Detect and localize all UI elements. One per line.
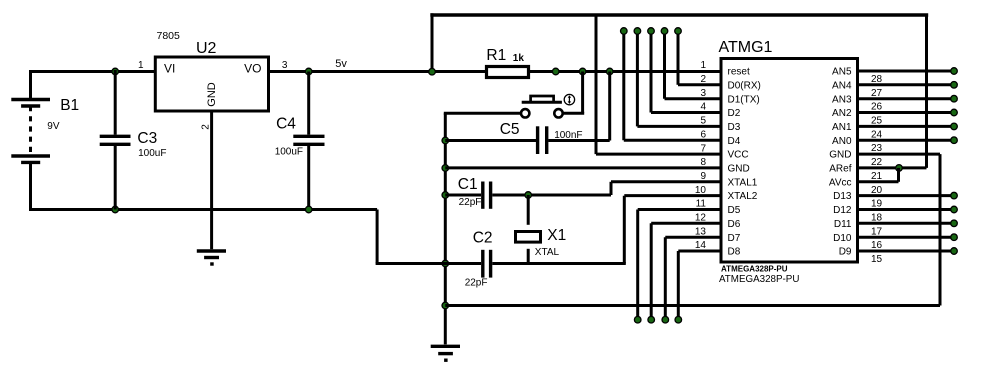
svg-text:2: 2 xyxy=(201,124,212,130)
node reset b (button) xyxy=(579,68,586,75)
wire gnd bus vertical xyxy=(444,113,447,344)
svg-text:10: 10 xyxy=(695,185,707,196)
svg-text:GND: GND xyxy=(728,164,750,175)
svg-text:21: 21 xyxy=(871,171,883,182)
wire XTAL2 row pin10 xyxy=(624,194,721,197)
wire pin 12 drop xyxy=(650,223,653,319)
IC ATMG1 box xyxy=(721,59,858,263)
svg-text:C2: C2 xyxy=(473,229,493,246)
node AN3 xyxy=(951,95,958,102)
svg-text:23: 23 xyxy=(871,143,883,154)
svg-text:22pF: 22pF xyxy=(459,197,482,208)
svg-text:25: 25 xyxy=(871,116,883,127)
node bottom pin 14 xyxy=(675,316,682,323)
wire button right lead xyxy=(563,112,585,115)
svg-text:5v: 5v xyxy=(335,58,347,70)
wire AN1 stub xyxy=(858,125,955,128)
battery B1 xyxy=(11,70,50,211)
svg-text:100nF: 100nF xyxy=(554,130,582,141)
svg-text:C1: C1 xyxy=(458,176,478,193)
svg-text:D9: D9 xyxy=(839,247,852,258)
node bottom pin 13 xyxy=(662,316,669,323)
capacitor C2 xyxy=(376,250,626,278)
node header top pin 2 xyxy=(675,28,682,35)
wire pin 14 row xyxy=(678,250,721,253)
wire VCC row pin7 xyxy=(596,153,721,156)
wire pin 13 drop xyxy=(664,237,667,320)
node C3 bottom xyxy=(112,206,119,213)
node AN5 xyxy=(951,68,958,75)
svg-text:AN3: AN3 xyxy=(832,94,852,105)
node bus bottom rail xyxy=(442,302,449,309)
wire header riser to pin 5 xyxy=(636,31,639,126)
wire reset drop to C5 xyxy=(608,72,611,141)
wire pin 13 row xyxy=(665,236,721,239)
svg-text:X1: X1 xyxy=(547,227,566,244)
crystal X1 xyxy=(516,195,541,264)
wire pin 11 drop xyxy=(636,210,639,320)
svg-text:AN2: AN2 xyxy=(832,108,852,119)
node D13 xyxy=(951,192,958,199)
wire ARef stub xyxy=(858,166,927,169)
node header top pin 3 xyxy=(661,28,668,35)
svg-text:D3: D3 xyxy=(728,122,741,133)
svg-text:VCC: VCC xyxy=(728,150,749,161)
svg-text:19: 19 xyxy=(871,199,883,210)
node bus C1 xyxy=(442,192,449,199)
svg-text:B1: B1 xyxy=(60,97,79,114)
node header top pin 4 xyxy=(648,28,655,35)
wire AN4 stub xyxy=(858,83,955,86)
svg-text:1: 1 xyxy=(700,60,706,71)
svg-text:ATMEGA328P-PU: ATMEGA328P-PU xyxy=(721,264,788,273)
svg-text:100uF: 100uF xyxy=(138,148,166,159)
svg-text:D11: D11 xyxy=(834,219,852,230)
wire bottom gnd rail xyxy=(445,304,940,307)
svg-text:5: 5 xyxy=(700,116,706,127)
wire AN5 stub xyxy=(858,70,955,73)
svg-text:9V: 9V xyxy=(47,121,60,132)
svg-text:XTAL2: XTAL2 xyxy=(728,191,758,202)
capacitor C3 xyxy=(100,70,131,210)
svg-text:VI: VI xyxy=(164,61,175,75)
svg-text:reset: reset xyxy=(728,67,750,78)
svg-text:D10: D10 xyxy=(833,233,852,244)
svg-text:GND: GND xyxy=(829,150,851,161)
svg-text:AN0: AN0 xyxy=(832,136,852,147)
wire AVcc riser xyxy=(897,168,900,182)
node bottom pin 12 xyxy=(648,316,655,323)
node header top pin 5 xyxy=(634,28,641,35)
node ARef-AVcc xyxy=(896,165,903,172)
svg-text:VO: VO xyxy=(244,61,261,75)
svg-text:7805: 7805 xyxy=(157,30,181,42)
node bus GND row xyxy=(442,165,449,172)
wire header riser to pin 4 xyxy=(650,31,653,113)
svg-text:D8: D8 xyxy=(728,247,741,258)
push button S1 xyxy=(521,96,563,118)
svg-text:14: 14 xyxy=(695,240,707,251)
svg-text:D4: D4 xyxy=(728,136,741,147)
wire D9 stub xyxy=(858,250,955,253)
wire D13 stub xyxy=(858,194,955,197)
capacitor C4 xyxy=(293,72,324,210)
svg-text:XTAL: XTAL xyxy=(535,247,560,258)
wire pin 14 drop xyxy=(677,251,680,320)
svg-text:27: 27 xyxy=(871,88,883,99)
svg-text:XTAL1: XTAL1 xyxy=(728,177,758,188)
wire D12 stub xyxy=(858,208,955,211)
wire R1 to reset pin1 xyxy=(530,70,721,73)
wire XTAL1 row pin9 xyxy=(611,180,721,183)
wire header riser to pin 6 xyxy=(622,31,625,140)
svg-text:7: 7 xyxy=(700,143,706,154)
node reset a xyxy=(552,68,559,75)
node C1-X1 junction xyxy=(525,192,532,199)
ground symbol at bus xyxy=(431,346,460,360)
wire 5v riser xyxy=(431,13,434,71)
svg-text:D0(RX): D0(RX) xyxy=(728,80,761,91)
svg-text:C4: C4 xyxy=(276,115,296,132)
svg-text:C5: C5 xyxy=(500,121,520,138)
node AN1 xyxy=(951,123,958,130)
wire battery+ to VI xyxy=(29,70,157,73)
svg-text:C3: C3 xyxy=(137,130,157,147)
node AN4 xyxy=(951,82,958,89)
wire pin 5 row xyxy=(637,125,721,128)
svg-text:13: 13 xyxy=(695,226,707,237)
wire pin 4 row xyxy=(651,111,721,114)
svg-text:D2: D2 xyxy=(728,108,741,119)
wire header riser to pin 3 xyxy=(663,31,666,99)
node D10 xyxy=(951,234,958,241)
svg-text:AN5: AN5 xyxy=(832,67,852,78)
svg-text:3: 3 xyxy=(700,88,706,99)
op-amp U2 box xyxy=(155,57,268,111)
node D11 xyxy=(951,220,958,227)
svg-text:15: 15 xyxy=(871,254,883,265)
svg-text:11: 11 xyxy=(696,199,707,210)
wire pin 12 row xyxy=(651,222,721,225)
node D12 xyxy=(951,206,958,213)
svg-text:U2: U2 xyxy=(196,40,217,57)
svg-text:AN4: AN4 xyxy=(832,80,852,91)
svg-text:D12: D12 xyxy=(833,205,852,216)
wire pin 6 row xyxy=(624,139,721,142)
wire 5v top rail xyxy=(430,13,928,16)
svg-text:D13: D13 xyxy=(833,191,852,202)
svg-text:ARef: ARef xyxy=(829,164,851,175)
wire pin 2 row xyxy=(678,83,721,86)
node AN0 xyxy=(951,137,958,144)
wire AN3 stub xyxy=(858,97,955,100)
wire VCC drop xyxy=(595,15,598,154)
svg-text:100uF: 100uF xyxy=(275,146,303,157)
node bus C5 xyxy=(442,137,449,144)
node reset c (C5) xyxy=(606,68,613,75)
wire GND pin22 stub xyxy=(858,153,941,156)
svg-text:1: 1 xyxy=(138,60,144,71)
node C4 bottom xyxy=(305,206,312,213)
node AN2 xyxy=(951,109,958,116)
svg-text:12: 12 xyxy=(695,213,707,224)
button direction symbol xyxy=(564,94,574,104)
wire U2 GND pin down xyxy=(210,111,213,249)
svg-text:8: 8 xyxy=(700,157,706,168)
svg-text:D6: D6 xyxy=(728,219,741,230)
svg-text:D7: D7 xyxy=(728,233,741,244)
node bottom pin 11 xyxy=(634,316,641,323)
svg-text:AVcc: AVcc xyxy=(829,177,852,188)
ground rail bottom-left xyxy=(29,208,377,211)
svg-text:D5: D5 xyxy=(728,205,741,216)
node 5v riser xyxy=(429,68,436,75)
svg-text:2: 2 xyxy=(700,74,706,85)
capacitor C5 xyxy=(445,126,609,154)
wire AN0 stub xyxy=(858,139,955,142)
svg-text:R1: R1 xyxy=(486,47,506,64)
wire GND row pin8 xyxy=(445,166,721,169)
svg-text:AN1: AN1 xyxy=(832,122,852,133)
svg-text:ATMEGA328P-PU: ATMEGA328P-PU xyxy=(719,274,799,285)
wire D11 stub xyxy=(858,222,955,225)
wire button left lead to gnd bus xyxy=(444,112,521,115)
resistor R1 xyxy=(487,67,529,78)
wire button right riser xyxy=(581,72,584,114)
svg-text:4: 4 xyxy=(700,102,706,113)
wire pin 3 row xyxy=(665,97,722,100)
wire rail right drop to ARef xyxy=(925,15,928,168)
node header top pin 6 xyxy=(621,28,628,35)
svg-text:6: 6 xyxy=(700,129,706,140)
wire AVcc stub xyxy=(858,180,899,183)
node C3 top xyxy=(112,68,119,75)
wire XTAL2 riser xyxy=(623,196,626,264)
svg-text:22pF: 22pF xyxy=(465,278,488,289)
wire header riser to pin 2 xyxy=(677,31,680,85)
node C4 top xyxy=(305,68,312,75)
wire rail drop to C2 row xyxy=(376,210,379,264)
wire AN2 stub xyxy=(858,111,955,114)
wire D10 stub xyxy=(858,236,955,239)
svg-text:9: 9 xyxy=(700,171,706,182)
svg-text:3: 3 xyxy=(282,60,288,71)
svg-text:17: 17 xyxy=(871,226,883,237)
node bus C2 xyxy=(442,260,449,267)
svg-text:GND: GND xyxy=(206,82,218,107)
node D9 xyxy=(951,248,958,255)
wire pin 11 row xyxy=(638,208,721,211)
svg-text:ATMG1: ATMG1 xyxy=(719,39,773,56)
wire GND return drop xyxy=(939,154,942,305)
svg-text:D1(TX): D1(TX) xyxy=(728,94,760,105)
wire VO to R1 (5v) xyxy=(269,70,487,73)
capacitor C1 xyxy=(445,182,611,209)
wire XTAL1 riser xyxy=(610,182,613,195)
ground symbol under U2 xyxy=(197,251,226,264)
svg-text:1k: 1k xyxy=(513,53,525,64)
